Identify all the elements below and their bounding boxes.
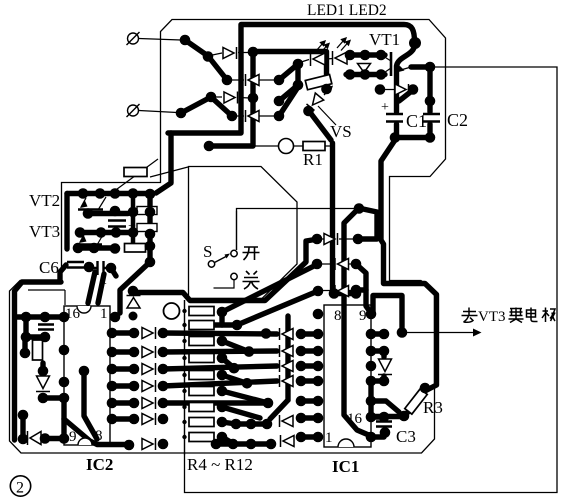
wire diode top right row <box>381 89 412 91</box>
IC2 body <box>64 306 110 445</box>
wire from connector 2 <box>139 111 177 113</box>
diode D-d left <box>248 111 259 122</box>
diode mid row7 <box>283 436 294 447</box>
svg-text:+: + <box>99 277 107 292</box>
svg-text:IC2: IC2 <box>86 455 113 474</box>
resistor R10 <box>189 403 214 412</box>
svg-text:9: 9 <box>69 429 77 445</box>
LED2 emission arrows <box>337 38 350 51</box>
chinese glyph 开 <box>243 247 260 260</box>
circle of R1 fuse symbol <box>279 139 294 154</box>
resistor R7 <box>189 354 214 363</box>
LED1 <box>313 53 325 65</box>
wire trace IC1 right pin stubs <box>371 334 384 437</box>
wire trace top of IC2 to switch region <box>133 289 136 294</box>
wire fan trace R10 <box>222 407 260 418</box>
diode near VT1 <box>395 84 406 95</box>
diode below VT1 vertical <box>358 64 371 73</box>
wire trace VT2 cluster right rail <box>147 194 152 262</box>
wire trace left bottom stub <box>20 415 25 439</box>
wire trace left cluster row <box>15 314 64 319</box>
wire trace bottom diode row <box>45 436 64 441</box>
diode above IC2 vertical up <box>127 298 140 309</box>
wire trace C6 to left rail <box>60 265 66 281</box>
diode D-a right <box>223 48 234 59</box>
wire trace bottom row pads 2 <box>216 441 271 446</box>
wire trace right-side long run to R3 <box>381 140 437 393</box>
capacitor left of IC2 <box>38 325 54 330</box>
figure number circled 2 <box>10 476 30 496</box>
ladder component in VT2 cluster <box>137 207 157 215</box>
wire trace from VS pad down to main bus <box>309 111 331 140</box>
wire diode row1 mid <box>320 238 355 240</box>
junction dots on resistor rail <box>182 309 186 439</box>
wire trace left diode top lead <box>40 363 45 373</box>
wire fan trace R5 <box>237 291 318 325</box>
transistor VT3 arrowhead <box>79 235 87 244</box>
transistor VT3 <box>77 243 102 246</box>
wire trace left diode row3 <box>112 366 134 371</box>
wire trace top bus with curve to VT1 collector pad <box>168 25 415 134</box>
diode left row5 <box>142 398 153 409</box>
wire trace VT2 row2 <box>88 211 128 216</box>
capacitor C6 <box>67 262 84 268</box>
wire trace left diode row5 <box>112 400 134 405</box>
resistor left of IC2 <box>33 340 43 360</box>
diode left row4 <box>142 381 153 392</box>
chinese glyph 关 <box>243 271 260 289</box>
hole circle near R4 <box>164 303 180 319</box>
IC1 body <box>324 305 371 447</box>
resistor R11 <box>189 418 214 427</box>
wire bus right of resistors <box>270 316 288 419</box>
wire trace IC2 pin8 to right <box>64 419 128 445</box>
transistor VT3 arrow lead <box>80 233 85 242</box>
wire trace mid row1 <box>163 333 277 334</box>
resistor R3 <box>405 389 427 414</box>
wire trace mid row5 <box>163 400 268 405</box>
wire fan trace R12 <box>222 437 233 444</box>
svg-text:+: + <box>381 100 389 115</box>
wire trace C2 lower lead <box>427 124 432 137</box>
svg-text:VT2: VT2 <box>29 191 60 210</box>
wire diode row A <box>210 53 253 56</box>
wire VT1 collector lead <box>383 56 391 61</box>
switch S arm arrow <box>215 257 227 263</box>
board outline <box>10 20 446 454</box>
diode mid row3 <box>282 361 293 372</box>
resistor near VS <box>305 74 332 89</box>
resistor R2 <box>124 168 147 177</box>
wire trace cluster drop 2 <box>98 274 104 303</box>
thick row traces and fan <box>112 265 384 445</box>
diodes group: open triangles with cathode bars <box>28 47 409 450</box>
wire VT3 upper leads <box>97 233 104 245</box>
svg-text:IC1: IC1 <box>332 457 359 476</box>
resistor R8 <box>189 371 214 380</box>
wire trace mid row4 <box>163 381 277 386</box>
resistor R5 <box>189 321 214 330</box>
wire thin jog above IC2 <box>28 290 65 305</box>
resistor R12 <box>189 433 214 442</box>
wire trace diode vert lead IC1 right <box>381 351 386 381</box>
wire trace IC2 left edge <box>61 398 66 438</box>
connector circle 1 <box>127 32 140 45</box>
diode mid row4 <box>282 376 293 387</box>
transistor VT2 arrow lead <box>81 198 86 207</box>
svg-text:VS: VS <box>330 122 352 141</box>
wire fan trace R11 <box>222 422 236 424</box>
svg-text:R4 ~ R12: R4 ~ R12 <box>187 455 253 474</box>
wire S switch link to 开 <box>236 211 238 250</box>
wire trace left diode row1 <box>112 330 134 335</box>
long bus from switch area through IC1 <box>344 209 371 436</box>
wire trace C2 upper lead <box>427 67 432 112</box>
wire zigzag trace rows top-left <box>185 40 227 80</box>
diode IC1 right vertical down <box>379 359 392 372</box>
wire R2 leads <box>113 159 188 192</box>
wire fan trace R7 <box>222 358 234 368</box>
wire diode row B <box>230 79 276 81</box>
wire trace LED1 LED2 row pads <box>347 52 385 57</box>
inner thin polygon around switch S <box>189 167 298 299</box>
wire trace vertical to R1 pad <box>211 51 253 146</box>
wire trace ladder column <box>131 196 136 244</box>
wire diode row3 mid <box>320 290 355 292</box>
capacitor C2 <box>423 114 440 122</box>
chinese glyph 极 <box>542 308 555 323</box>
wire LED string <box>298 56 350 63</box>
capacitor C3 <box>376 422 392 433</box>
wire trace electrolytic to IC2 pin1 <box>111 262 150 313</box>
chinese glyph 电 <box>527 308 538 322</box>
wire VT1 base lead <box>383 68 391 74</box>
main vertical bus from R1 to IC1 pad <box>330 143 335 291</box>
svg-text:9: 9 <box>359 308 367 324</box>
wire diagonal trace <box>279 64 298 101</box>
capacitor C1 <box>386 114 403 122</box>
wire trace mid row2 <box>163 351 277 352</box>
wire trace diagonal from diode pad <box>399 90 413 101</box>
wire trace IC1 top pads <box>334 291 356 296</box>
resistor R4 <box>189 307 214 316</box>
svg-text:2: 2 <box>16 480 24 497</box>
svg-text:VT1: VT1 <box>369 30 400 49</box>
svg-text:1: 1 <box>325 430 333 446</box>
inner wire rect from switch <box>237 209 357 251</box>
wire diode row D <box>235 115 276 117</box>
svg-text:VT3: VT3 <box>478 309 506 325</box>
svg-text:R3: R3 <box>423 398 443 417</box>
svg-text:8: 8 <box>95 428 103 444</box>
diode D-c right <box>224 92 235 103</box>
trace from IC2 top pad along switch region bottom <box>136 240 315 301</box>
wire trace left diode bottom row <box>43 395 64 400</box>
wire VT1 emitter arrow lead <box>399 67 411 71</box>
wire trace IC1 pin rows <box>301 334 318 437</box>
solder pads <box>18 35 436 451</box>
diode row3 above IC1 <box>338 286 349 297</box>
svg-text:C3: C3 <box>396 427 416 446</box>
svg-text:R1: R1 <box>303 150 323 169</box>
wire trace diode row to upper pad <box>358 209 377 239</box>
wire trace left cluster stub <box>26 317 45 337</box>
resistor R1 <box>303 142 325 151</box>
chinese glyph 集 <box>509 308 524 323</box>
wire trace diode row2 to right riser <box>356 264 371 313</box>
diode left row6 <box>142 414 153 425</box>
wire trace cluster drop to IC2 pin16 <box>88 272 95 303</box>
diode left row2 <box>142 347 153 358</box>
wire zigzag trace <box>181 97 232 116</box>
wire trace left resistor lead <box>22 337 27 352</box>
wire trace bottom of C1 C2 <box>394 135 431 140</box>
wire loop to external <box>185 67 558 493</box>
wire S switch link from 关 <box>214 280 235 289</box>
arrowhead of external wire <box>473 329 482 337</box>
wire trace diode row3 stub <box>356 287 366 292</box>
diode left row7 <box>142 439 153 450</box>
wire VS label pointer <box>318 106 336 125</box>
wire trace pin16 arrow pad riser <box>373 296 402 333</box>
thick copper traces <box>15 25 437 445</box>
VS arrow <box>324 87 332 96</box>
wire trace R4 pad stub <box>219 312 224 325</box>
wire trace R5 to pad <box>215 322 237 327</box>
wire trace VT2 row3 <box>80 230 133 235</box>
diode row1 above IC1 <box>324 234 335 245</box>
wire fan trace R8 <box>222 375 247 383</box>
diode mid row1 <box>282 329 293 340</box>
switch S contacts <box>208 250 237 279</box>
wire trace VT1 base row pads <box>346 72 385 77</box>
wire trace VT3 row <box>78 245 115 250</box>
wire trace left diode row6 <box>112 416 134 421</box>
wire fan trace R6 <box>222 341 249 352</box>
wire trace left diode row2 <box>112 349 134 354</box>
svg-text:1: 1 <box>100 306 108 322</box>
diode bottom left pointing left <box>30 432 41 445</box>
wire resistor column rail <box>184 300 186 455</box>
wire trace C1 lower lead <box>394 124 399 137</box>
wire trace VT1 emitter stub <box>411 64 428 69</box>
diode left row1 <box>142 328 153 339</box>
svg-text:C6: C6 <box>39 258 59 277</box>
wire VT2 upper leads <box>98 197 106 210</box>
wire LED feed trace <box>256 52 327 87</box>
diode left cluster vertical down <box>37 376 50 389</box>
wire trace bottom row pads <box>236 421 267 426</box>
wire trace left edge rail <box>15 282 62 440</box>
resistor R6 <box>189 337 214 346</box>
wire diagonal trace <box>279 87 298 116</box>
diode row2 above IC1 <box>338 259 349 270</box>
diode mid row2 <box>282 346 293 357</box>
wire arrow to VT3 collector <box>404 332 473 334</box>
transistor VT2 arrowhead <box>80 200 88 209</box>
chinese glyph 去 <box>462 308 478 323</box>
wire from connector 1 <box>139 39 181 41</box>
transistor VT1 emitter arrowhead <box>397 66 405 73</box>
resistor R9 <box>189 387 214 396</box>
wire trace mid row3 <box>163 366 277 369</box>
wire trace IC1 right column link <box>371 381 399 417</box>
svg-text:C1: C1 <box>406 111 427 131</box>
svg-text:8: 8 <box>334 308 342 324</box>
thin connection wires <box>28 39 473 456</box>
wire trace VT1 collector curve down <box>397 44 416 112</box>
svg-text:16: 16 <box>347 411 363 427</box>
svg-text:S: S <box>203 242 212 261</box>
connector circle 2 <box>127 104 140 117</box>
wire trace VT2 cluster top row <box>67 191 150 196</box>
LED2 <box>335 52 347 64</box>
wire trace VT2 cluster left rail <box>64 194 69 250</box>
wire fan trace R9 <box>222 391 268 403</box>
wire fan trace R4 <box>222 265 317 313</box>
svg-text:+: + <box>128 219 136 234</box>
transistor VT1 <box>390 52 393 76</box>
transistor VT2 <box>78 208 103 211</box>
wire R1 row <box>213 145 331 147</box>
wire trace from bus down-left to VT2 cluster <box>156 133 171 193</box>
wire trace inside IC2 <box>84 371 97 439</box>
capacitor in VT2 cluster <box>108 221 126 227</box>
wire trace left diode row4 <box>112 383 134 388</box>
svg-text:LED1 LED2: LED1 LED2 <box>307 2 387 19</box>
diode left row3 <box>142 364 153 375</box>
svg-text:VT3: VT3 <box>29 222 60 241</box>
diode D-b left <box>248 75 259 86</box>
LED VS rotated <box>313 93 324 105</box>
svg-text:C2: C2 <box>447 110 468 130</box>
electrolytic capacitor beside C6 <box>90 261 110 275</box>
LED1 emission arrows <box>316 41 329 54</box>
wire trace R3 lower lead to pin16 row <box>371 412 408 417</box>
diode mid row6 <box>282 416 293 427</box>
wire diode row2 mid <box>319 263 355 265</box>
resistor in VT3 row <box>125 244 146 253</box>
wire diode row C <box>214 97 250 98</box>
